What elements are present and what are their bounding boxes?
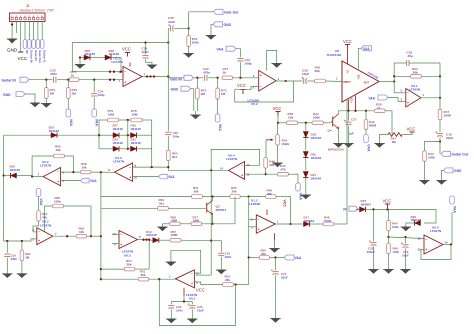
net flag GND left <box>3 92 40 108</box>
svg-text:LF347N: LF347N <box>113 160 125 164</box>
svg-text:10uF: 10uF <box>197 308 204 312</box>
svg-text:10: 10 <box>113 232 117 236</box>
svg-text:MPS2222A: MPS2222A <box>328 148 345 152</box>
svg-text:VAA: VAA <box>168 175 175 179</box>
svg-text:GND: GND <box>3 93 11 97</box>
net flag Gate Out <box>189 9 240 28</box>
wire control rail y=110.8 <box>339 110 375 112</box>
wire U2.4 output to VAA flag <box>443 212 452 246</box>
svg-text:20k: 20k <box>127 263 132 267</box>
svg-text:+: + <box>425 248 427 252</box>
svg-text:100k: 100k <box>192 41 199 45</box>
wire U5.2 output <box>276 80 303 82</box>
svg-text:GND: GND <box>224 23 232 27</box>
net flag Guitar IN <box>2 77 47 82</box>
svg-text:+: + <box>38 239 40 243</box>
resistor R64 5k1 <box>167 150 178 170</box>
wire U6.1 feedback loop bottom <box>159 279 235 325</box>
resistor R43 100k <box>419 142 440 185</box>
svg-text:100k: 100k <box>392 225 399 229</box>
diode D22 1N4148 <box>99 138 131 152</box>
net flag VAA above R67 <box>36 189 43 211</box>
svg-text:15k: 15k <box>288 115 293 119</box>
svg-text:GND: GND <box>454 169 462 173</box>
capacitor C35 10uF <box>168 16 190 42</box>
resistor R42 200k <box>312 112 333 125</box>
svg-text:1M: 1M <box>72 92 77 96</box>
diode ladder resistor R78 10M <box>131 109 152 122</box>
resistor R77 10M <box>191 197 235 226</box>
svg-text:GND: GND <box>7 48 18 53</box>
resistor R67 47k <box>33 211 48 232</box>
resistor R72 1M <box>216 78 227 114</box>
svg-text:10k: 10k <box>56 148 61 152</box>
wire U6.1 pin3 ground route <box>166 250 201 273</box>
op-amp U6.3 LF347N <box>112 231 141 258</box>
svg-text:VAA: VAA <box>69 119 73 127</box>
wire vertical V1 x=100.9 <box>100 172 102 280</box>
svg-text:VAA: VAA <box>299 193 303 201</box>
capacitor C24 330n <box>216 241 232 274</box>
svg-text:5k1: 5k1 <box>159 202 164 206</box>
wire U3.1 output to Gate IN node <box>142 75 170 77</box>
wire Gate IN row <box>194 77 204 79</box>
svg-text:+: + <box>407 101 409 105</box>
capacitor C23 10uF <box>187 302 204 324</box>
op-amp U2.4 LF347N <box>418 226 449 255</box>
svg-text:INPUT: INPUT <box>344 81 352 84</box>
wire U8 bottom pins to rail <box>349 96 356 111</box>
net flag VAA below R72 <box>215 114 222 131</box>
svg-text:10M: 10M <box>171 219 177 223</box>
svg-text:100K: 100K <box>171 233 179 237</box>
svg-text:+: + <box>124 80 126 84</box>
svg-text:+: + <box>57 180 59 184</box>
ground arrow below U1.2 <box>269 233 279 252</box>
diode D20 1N4148 <box>303 152 321 171</box>
transistor Q3 2N5551 <box>207 197 227 224</box>
ground pin1 header <box>7 23 18 52</box>
net flag VAA at U2.2 pin5 <box>61 178 98 183</box>
resistor R49 22k <box>264 158 275 176</box>
capacitor C31 100p <box>238 58 252 78</box>
svg-text:−: − <box>407 91 409 95</box>
svg-text:Guitar O.: Guitar O. <box>42 50 46 63</box>
resistor R50 20k <box>230 186 250 198</box>
op-amp U2.2 LF347N mirrored <box>31 160 65 186</box>
svg-text:1N4148: 1N4148 <box>311 136 322 140</box>
svg-text:EC−: EC− <box>357 75 361 81</box>
svg-text:−: − <box>260 85 262 89</box>
resistor R47 100R <box>438 109 451 132</box>
svg-text:1M: 1M <box>201 92 206 96</box>
net flag GND at output <box>436 168 462 185</box>
op-amp U9.1 LF353N <box>394 84 424 107</box>
svg-text:VCC: VCC <box>283 200 287 208</box>
diode D19 1N4148 <box>146 230 170 243</box>
svg-text:LF353N: LF353N <box>249 202 261 206</box>
svg-text:100k: 100k <box>428 156 435 160</box>
svg-text:1N4148: 1N4148 <box>311 156 322 160</box>
wire row y=196.5 from V1 <box>101 196 192 198</box>
svg-text:VAA: VAA <box>295 256 302 260</box>
power VCC right of R41 <box>402 127 415 135</box>
diode D23 1N4148 <box>4 125 99 138</box>
wire U6.4 pin12 row <box>245 173 278 175</box>
svg-text:20k: 20k <box>141 273 146 277</box>
wire U1.2 pin2 pin3 <box>249 219 257 226</box>
diode D21 1N4148 <box>131 138 152 152</box>
svg-text:−: − <box>129 165 131 169</box>
svg-text:14: 14 <box>220 166 224 170</box>
net flag VAA below C34 <box>92 109 99 126</box>
svg-text:+: + <box>241 174 243 178</box>
capacitor C16 330n bottom left <box>2 241 17 278</box>
power VCC control <box>273 106 282 124</box>
svg-text:20k: 20k <box>315 69 320 73</box>
svg-text:20k: 20k <box>194 190 199 194</box>
capacitor C25 100uF <box>367 209 379 273</box>
capacitor C33 470n <box>45 69 70 83</box>
resistor R45 47k <box>278 164 299 183</box>
svg-text:1N4148: 1N4148 <box>49 129 60 133</box>
svg-text:5k1: 5k1 <box>172 155 177 159</box>
svg-text:+: + <box>120 243 122 247</box>
diode ladder resistor R79 10M <box>99 109 131 122</box>
op-amp U3.1 LF347N <box>112 57 146 87</box>
svg-text:1M: 1M <box>392 140 397 144</box>
svg-text:100n: 100n <box>176 308 183 312</box>
svg-text:10M: 10M <box>193 219 199 223</box>
svg-text:22uF: 22uF <box>281 275 288 279</box>
transistor Q4 MPS2222A <box>328 111 345 152</box>
connector J1 Header2.54mm 1*8P <box>10 4 55 21</box>
svg-text:10kΩ: 10kΩ <box>282 142 290 146</box>
wire U3.1 inverting input and feedback left vertical <box>72 43 123 73</box>
svg-text:100n: 100n <box>142 50 149 54</box>
svg-text:VCC: VCC <box>18 56 28 61</box>
svg-text:1N4148: 1N4148 <box>113 141 124 145</box>
capacitor C19 10uF <box>400 236 410 274</box>
svg-text:1uF: 1uF <box>349 132 355 136</box>
capacitor C20 100n <box>166 302 183 324</box>
diode D30 1N4148 <box>401 209 436 231</box>
svg-text:9V: 9V <box>25 50 29 54</box>
svg-text:470n: 470n <box>203 71 210 75</box>
resistor R58 15k <box>278 112 312 125</box>
net flag Gate IN <box>168 75 193 81</box>
svg-text:1M: 1M <box>50 92 55 96</box>
svg-text:VAA: VAA <box>90 179 97 183</box>
potentiometer RV3 10k <box>266 123 290 167</box>
resistor R51 20k <box>101 269 175 281</box>
svg-text:1M: 1M <box>25 255 30 259</box>
wire VAA node row <box>389 237 425 239</box>
svg-text:U6.1: U6.1 <box>189 297 196 301</box>
wire left vertical x=3.6 <box>2 135 4 241</box>
svg-text:1N4007: 1N4007 <box>361 202 372 206</box>
resistor R44 100k <box>387 209 399 238</box>
svg-text:EC+: EC+ <box>350 98 354 104</box>
svg-text:VCC: VCC <box>407 127 416 132</box>
wire U9.1 output <box>421 63 441 109</box>
resistor R41 1M zigzag <box>388 133 402 144</box>
svg-text:VCC: VCC <box>196 287 205 292</box>
diode D18 1N4148 <box>303 123 321 151</box>
wire U6.4 riser to R57 row <box>210 170 212 240</box>
power VCC at U1.2 <box>267 200 287 216</box>
svg-text:VAA: VAA <box>218 124 222 132</box>
svg-text:470n: 470n <box>50 72 57 76</box>
svg-text:LF347N: LF347N <box>40 164 52 168</box>
diode D25 1N4148 <box>4 165 32 179</box>
svg-text:VCC: VCC <box>273 106 282 111</box>
resistor R75 1k <box>67 70 123 81</box>
resistor R54 20k <box>101 239 150 271</box>
svg-text:330n: 330n <box>225 255 232 259</box>
op-amp U6.1 LF347N mirrored <box>169 270 198 301</box>
net flags header pins 4-8 <box>23 25 46 64</box>
resistor R68 10k <box>61 162 115 174</box>
wire feedback node vertical x=394.2 <box>393 63 395 93</box>
wire Q3 emitter row y=223.8 <box>157 223 213 231</box>
svg-text:100p: 100p <box>98 93 105 97</box>
power VCC at U6.1 <box>184 287 205 301</box>
resistor R65 20k <box>315 66 343 83</box>
svg-text:VCC: VCC <box>122 47 131 52</box>
ic U8 THAT2181 VCA <box>327 49 380 104</box>
svg-text:1N4148: 1N4148 <box>131 127 142 131</box>
capacitor C32 470n <box>203 67 219 81</box>
capacitor C26 20p <box>394 51 440 67</box>
svg-text:10k: 10k <box>82 166 87 170</box>
svg-text:VAA: VAA <box>367 144 371 152</box>
svg-text:Header2.54mm 1*8P: Header2.54mm 1*8P <box>20 8 55 12</box>
svg-text:Guitar Out: Guitar Out <box>452 152 469 156</box>
wire U6.4 feedback loop pin13 <box>211 149 259 170</box>
diode D26 1N4148 <box>131 124 152 138</box>
svg-text:1k: 1k <box>223 71 227 75</box>
svg-text:−: − <box>425 238 427 242</box>
svg-text:LF347N: LF347N <box>40 223 52 227</box>
svg-text:20k: 20k <box>267 192 272 196</box>
capacitor C29 100n <box>142 43 158 70</box>
svg-text:10M: 10M <box>108 113 114 117</box>
capacitor C30 100n <box>165 131 179 150</box>
resistor R60 5k1 <box>101 198 207 210</box>
wire bottom left input row <box>4 239 31 242</box>
resistor R38 1k <box>375 103 392 113</box>
svg-text:1N4148: 1N4148 <box>146 233 157 237</box>
svg-text:−: − <box>191 272 193 276</box>
diode D28 1N4148 <box>105 49 122 73</box>
wire long vertical x=168.3 from U3.1 output <box>167 43 169 131</box>
power VCC at U5.2 <box>237 83 246 94</box>
power VCC pin3 header <box>16 25 27 62</box>
diode D29 1N4148 <box>80 49 105 60</box>
net flag VAA right of R55 <box>276 255 302 260</box>
wire U6.3 output row <box>138 239 152 241</box>
svg-text:330n: 330n <box>11 257 18 261</box>
svg-text:10M: 10M <box>132 113 138 117</box>
power VCC above U3.1 <box>122 47 131 67</box>
resistor R69 10k feedback <box>32 145 73 177</box>
svg-text:10uF: 10uF <box>402 253 409 257</box>
diode D17 1N5819 <box>304 216 324 227</box>
wire U5.2 ground top <box>267 50 282 70</box>
resistor R73 1M <box>196 78 207 111</box>
resistor R59 10k <box>76 226 102 238</box>
svg-text:U6.3: U6.3 <box>124 253 131 257</box>
op-amp U6.4 LF347N mirrored <box>220 154 250 180</box>
resistor R71 1k <box>222 67 259 79</box>
wire caps rail at U6.1 <box>171 300 192 302</box>
svg-text:Q4: Q4 <box>328 129 332 133</box>
svg-text:20k: 20k <box>413 70 418 74</box>
wire U8 output to U9.1 virtual ground <box>379 80 395 82</box>
wire U5.2 feedback loop <box>235 80 294 102</box>
net flag GND near R73 <box>171 86 201 119</box>
svg-text:100k: 100k <box>393 250 400 254</box>
wire U3.3 pin9 row <box>133 166 170 168</box>
svg-text:VAA: VAA <box>39 198 43 206</box>
capacitor C28 10uF <box>301 69 314 84</box>
resistor R57 100K <box>170 230 221 242</box>
resistor R62 20k <box>394 67 441 78</box>
svg-text:10uF: 10uF <box>302 72 309 76</box>
svg-text:22uF: 22uF <box>446 136 453 140</box>
svg-text:12: 12 <box>418 248 422 252</box>
svg-text:10k: 10k <box>79 230 84 234</box>
svg-text:U5.2: U5.2 <box>251 102 258 106</box>
svg-text:+: + <box>129 176 131 180</box>
svg-text:VCC: VCC <box>343 39 352 44</box>
resistor R52 100k <box>183 28 199 57</box>
net flag VAA vertical right <box>450 196 457 213</box>
resistor R63 1M bottom left <box>17 241 31 278</box>
net flag VAA to U9.1 <box>369 95 399 102</box>
svg-text:+: + <box>260 73 262 77</box>
diode D16 1N4007 <box>356 199 371 212</box>
resistor R40 560R <box>364 111 377 134</box>
svg-text:1k: 1k <box>71 74 75 78</box>
wire diode array verticals <box>98 120 152 167</box>
net flag VAA at U8 <box>358 46 371 70</box>
resistor R74 1M <box>41 80 55 108</box>
wire U6.4 output row <box>168 169 228 171</box>
svg-text:−: − <box>241 164 243 168</box>
svg-text:20k: 20k <box>261 252 266 256</box>
svg-text:GND: GND <box>171 88 179 92</box>
svg-text:20k: 20k <box>232 190 237 194</box>
capacitor C18 22uF <box>435 131 453 154</box>
svg-text:VAA: VAA <box>217 47 224 51</box>
resistor R56 10M <box>170 215 191 225</box>
svg-text:150k: 150k <box>54 199 61 203</box>
resistor R52b 20k <box>223 275 249 287</box>
op-amp U5.2 LF353N <box>248 71 280 107</box>
svg-text:1N4148: 1N4148 <box>10 168 21 172</box>
net flag 9V <box>343 206 358 212</box>
resistor R66 150k <box>45 196 93 238</box>
svg-text:VAA: VAA <box>363 47 370 51</box>
svg-text:LF347N: LF347N <box>112 60 124 64</box>
svg-text:200k: 200k <box>313 115 320 119</box>
op-amp U3.3 LF347N mirrored <box>109 156 138 182</box>
svg-text:−: − <box>124 69 126 73</box>
svg-text:−: − <box>57 170 59 174</box>
svg-text:10uF: 10uF <box>168 20 175 24</box>
wire U1.2 output row <box>275 223 303 225</box>
resistor R46 20k <box>249 189 292 226</box>
svg-text:Guitar IN: Guitar IN <box>30 50 34 63</box>
svg-text:13: 13 <box>418 237 422 241</box>
svg-text:VAA: VAA <box>453 206 457 214</box>
net flag VAA below R45 <box>296 183 303 200</box>
diode D27 1N4148 <box>99 124 131 138</box>
svg-text:14: 14 <box>445 241 449 245</box>
capacitor C34 100p <box>91 80 104 109</box>
ground arrow below D29 row <box>75 56 85 68</box>
svg-text:Guitar IN: Guitar IN <box>2 78 17 82</box>
svg-text:−: − <box>120 233 122 237</box>
svg-text:VCC: VCC <box>383 199 392 204</box>
resistor R61 20k <box>192 186 237 198</box>
svg-text:100uF: 100uF <box>367 250 376 254</box>
wire vertical x=248.7 <box>248 197 250 285</box>
svg-text:20p: 20p <box>408 54 413 58</box>
svg-text:1N4148: 1N4148 <box>131 141 142 145</box>
power VCC above U8 <box>343 39 352 65</box>
svg-text:−: − <box>258 217 260 221</box>
svg-text:100n: 100n <box>173 135 180 139</box>
svg-text:Gate IN: Gate IN <box>34 50 38 61</box>
svg-text:2N5551: 2N5551 <box>216 208 227 212</box>
svg-text:1N4148: 1N4148 <box>311 177 322 181</box>
svg-text:VAA: VAA <box>369 96 376 100</box>
svg-text:Gate Out: Gate Out <box>38 50 42 63</box>
diode D24 1N4148 <box>301 172 322 200</box>
svg-text:OUT: OUT <box>364 82 370 85</box>
svg-text:C27: C27 <box>351 118 357 122</box>
svg-text:−: − <box>38 230 40 234</box>
svg-text:1M: 1M <box>221 92 226 96</box>
svg-text:560R: 560R <box>369 124 377 128</box>
wire rail drop to R41 <box>391 111 393 135</box>
resistor R76 1M <box>67 80 78 109</box>
svg-text:47k: 47k <box>281 167 286 171</box>
svg-text:10: 10 <box>134 175 138 179</box>
net flag VAA below R76 <box>66 109 73 126</box>
resistor R46b 100k lower <box>383 237 399 274</box>
wire riser x=211.2 lower <box>196 241 211 275</box>
wire U3.2 output row <box>53 235 76 237</box>
svg-text:+: + <box>258 228 260 232</box>
capacitor C21 22uF <box>270 258 288 323</box>
svg-text:VAA: VAA <box>95 119 99 127</box>
op-amp U3.2 LF347N <box>31 220 57 245</box>
svg-text:100R: 100R <box>444 114 452 118</box>
svg-text:VCC: VCC <box>237 83 246 88</box>
svg-text:LF347N: LF347N <box>430 229 442 233</box>
svg-text:LF347N: LF347N <box>226 157 238 161</box>
wire U6.1 pin2 to R52 row <box>194 282 222 285</box>
net flag VAA below R40 <box>364 135 371 152</box>
svg-text:V+: V+ <box>346 70 350 74</box>
svg-text:+: + <box>191 282 193 286</box>
resistor R55 20k <box>249 248 277 259</box>
wire header pin stubs <box>12 22 42 25</box>
